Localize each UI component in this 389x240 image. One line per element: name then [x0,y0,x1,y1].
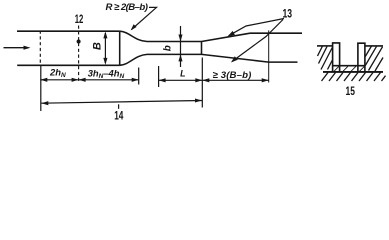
right bottom straight edge [269,61,298,63]
svg-text:b: b [163,45,174,51]
ground hatching below base [322,73,386,82]
channel flange top [332,65,365,67]
extension line 3hN right [138,68,140,85]
right top straight edge [250,32,302,34]
specimen bar bottom edge [17,64,120,66]
weld centerline (dashed, under 12) [78,26,80,84]
dashed extension line left [39,31,41,67]
weld dot on centerline [77,40,81,44]
section base line [323,71,383,73]
leader for R [132,7,157,29]
dimension line 14 [41,101,202,104]
dimension line 3hN-4hN [79,79,139,81]
radius transition top [120,31,147,41]
dimension B [104,33,106,63]
channel left wall [333,43,340,72]
svg-text:R ≥ 2(B–b): R ≥ 2(B–b) [106,2,148,13]
neck bottom edge [147,53,202,55]
svg-text:L: L [180,68,185,78]
svg-text:3hN–4hN: 3hN–4hN [88,67,125,80]
svg-text:12: 12 [75,12,84,26]
specimen bar top edge [17,30,120,32]
tick above label 14 [118,104,120,109]
extension line 14/2hN left [40,66,42,111]
entry arrow [4,46,31,50]
bar right end edge [119,31,121,65]
svg-text:15: 15 [346,84,356,98]
flare top edge [202,33,251,41]
svg-text:B: B [92,42,104,50]
leader 13 to top flare [229,19,285,36]
extension line L left [158,66,160,87]
neck end edge [201,42,203,55]
section figure 15 [317,43,383,72]
hatching left block [318,46,333,70]
flare bottom edge [202,54,269,62]
flare end edge / extension line [268,30,270,82]
channel right wall [358,43,365,72]
dimension line L [159,79,203,81]
left surface line [317,45,332,47]
hatching flange [334,66,364,71]
svg-text:≥ 3(B–b): ≥ 3(B–b) [213,70,252,81]
extension line L right / 14 right [201,58,203,108]
dimension line >=3(B-b) [202,79,268,81]
neck top edge [147,41,202,43]
hatching right block [365,46,383,71]
leader 13 to bottom flare [232,20,283,62]
dimension b [180,26,182,67]
dimension line 2hN [40,79,78,81]
svg-text:14: 14 [114,108,123,122]
right surface line [365,45,383,47]
radius transition bottom [120,54,147,65]
